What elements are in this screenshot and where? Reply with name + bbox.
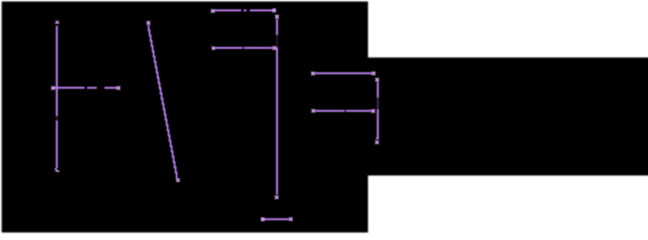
junction solder dot at right end of wire W4 [272, 9, 276, 13]
wire W8 vertical segment a [377, 82, 379, 98]
wire W2 horizontal segment a [54, 87, 85, 89]
open-end marker at right of wire W2 [117, 86, 120, 89]
wire W9 horizontal segment b [346, 110, 371, 112]
wire W6 horizontal segment b [244, 47, 272, 49]
open-end marker at top of wire W1 [56, 20, 59, 23]
wire W8 bottom stub [376, 137, 379, 139]
wire W8 vertical faint segment [377, 98, 379, 110]
open-end marker at top of wire W8 [376, 78, 379, 81]
wire W8 vertical segment b [377, 109, 379, 138]
wire W4 horizontal segment a [215, 9, 242, 11]
wire W1 vertical faint segment [56, 116, 58, 121]
open-end marker at right of wire W10 [289, 217, 292, 220]
open-end marker at top of wire W5 [275, 15, 278, 18]
wire W9 horizontal segment a [315, 110, 344, 112]
wire W4 horizontal segment b [250, 9, 272, 11]
pin-end square marker at left of wire W6 [212, 47, 215, 50]
open-end marker at left of wire W4 [211, 9, 214, 12]
wire W5 vertical segment b [276, 47, 278, 194]
wire W6 horizontal segment a [216, 47, 243, 49]
open-end marker at bottom of wire W1 [55, 168, 59, 171]
open-end marker at right of wire W6 [273, 46, 276, 49]
wire W5 vertical faint segment [276, 35, 278, 47]
wire W9 horizontal dim joint [344, 110, 346, 112]
wire W7 horizontal [315, 72, 372, 74]
wire W2 horizontal segment c [104, 87, 116, 89]
open-end marker at left of wire W7 [311, 72, 314, 75]
open-end marker at bottom of wire W3 [176, 179, 179, 182]
wire W5 vertical segment a [276, 19, 278, 35]
open-end marker at bottom of wire W5 [275, 196, 278, 199]
open-end marker at left of wire W9 [312, 109, 315, 112]
wire W6 horizontal dim joint [242, 47, 244, 49]
junction solder dot at left of wire W10 [261, 217, 265, 221]
wire W1 vertical lower segment [56, 121, 58, 169]
open-end marker at top of wire W3 [147, 21, 150, 24]
wire W1 vertical upper segment [56, 26, 58, 116]
wire W10 horizontal [264, 218, 288, 220]
wire W6 left faint tail [211, 45, 213, 48]
open-end marker at left of wire W2 [51, 86, 54, 89]
wire W3 diagonal [149, 25, 178, 178]
wire W4 horizontal short dash [244, 9, 247, 11]
open-end marker at bottom of wire W8 [375, 141, 378, 144]
wire W2 horizontal segment b [87, 87, 97, 89]
open-end marker at right of wire W9 [372, 109, 375, 112]
open-end marker at right of wire W7 [372, 72, 375, 75]
